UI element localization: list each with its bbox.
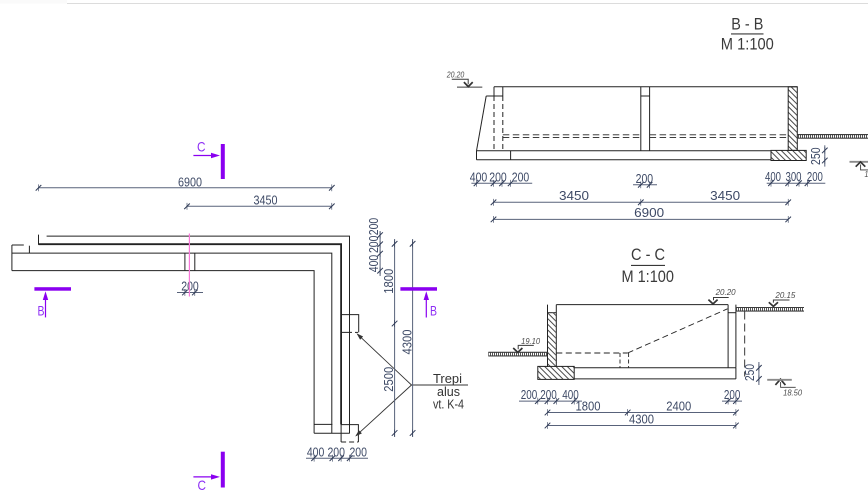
svg-text:18.50: 18.50 bbox=[783, 388, 803, 397]
svg-text:M 1:100: M 1:100 bbox=[721, 34, 774, 53]
svg-text:400: 400 bbox=[367, 255, 381, 273]
svg-text:3450: 3450 bbox=[559, 189, 589, 203]
svg-text:M 1:100: M 1:100 bbox=[621, 267, 674, 286]
svg-text:20.15: 20.15 bbox=[774, 291, 796, 300]
svg-text:C - C: C - C bbox=[631, 245, 665, 264]
svg-text:1800: 1800 bbox=[382, 269, 396, 294]
svg-text:6900: 6900 bbox=[178, 175, 202, 189]
svg-text:200: 200 bbox=[367, 218, 381, 236]
svg-text:300: 300 bbox=[786, 170, 802, 184]
svg-text:250: 250 bbox=[809, 147, 823, 165]
svg-text:6900: 6900 bbox=[634, 206, 664, 220]
svg-text:200: 200 bbox=[489, 170, 507, 184]
svg-text:4300: 4300 bbox=[400, 329, 414, 354]
svg-text:1800: 1800 bbox=[576, 400, 601, 414]
svg-text:vt. K-4: vt. K-4 bbox=[433, 396, 464, 411]
svg-text:C: C bbox=[197, 138, 206, 154]
svg-text:3450: 3450 bbox=[710, 189, 740, 203]
svg-text:200: 200 bbox=[512, 170, 530, 184]
svg-text:C: C bbox=[197, 477, 206, 493]
svg-text:18.50: 18.50 bbox=[865, 170, 868, 179]
svg-text:400: 400 bbox=[765, 170, 781, 184]
svg-text:200: 200 bbox=[540, 388, 557, 402]
svg-text:400: 400 bbox=[470, 170, 488, 184]
svg-text:200: 200 bbox=[367, 236, 381, 254]
svg-text:2400: 2400 bbox=[666, 400, 691, 414]
svg-text:200: 200 bbox=[521, 388, 538, 402]
svg-text:19.10: 19.10 bbox=[521, 337, 541, 346]
svg-text:3450: 3450 bbox=[254, 193, 278, 207]
svg-text:200: 200 bbox=[349, 445, 367, 459]
svg-text:200: 200 bbox=[181, 279, 199, 293]
svg-text:250: 250 bbox=[743, 364, 757, 381]
svg-text:20.20: 20.20 bbox=[446, 70, 465, 79]
svg-text:2500: 2500 bbox=[382, 367, 396, 392]
svg-text:200: 200 bbox=[636, 172, 654, 186]
svg-text:B: B bbox=[38, 302, 45, 318]
svg-text:B - B: B - B bbox=[731, 14, 763, 33]
svg-text:4300: 4300 bbox=[629, 412, 654, 426]
svg-text:200: 200 bbox=[327, 445, 345, 459]
svg-text:200: 200 bbox=[807, 170, 823, 184]
svg-text:200: 200 bbox=[724, 388, 741, 402]
svg-text:400: 400 bbox=[307, 445, 325, 459]
svg-text:B: B bbox=[430, 302, 437, 318]
svg-text:20.20: 20.20 bbox=[715, 288, 737, 297]
